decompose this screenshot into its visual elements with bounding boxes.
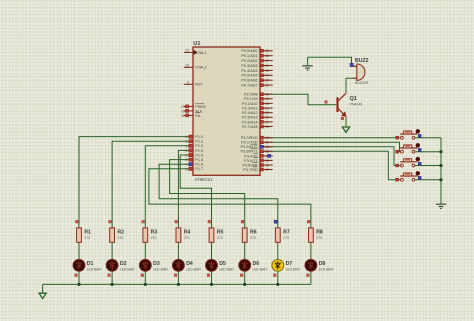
svg-text:36: 36: [265, 64, 269, 68]
svg-text:23: 23: [265, 102, 269, 106]
transistor Q1 (PN4249): [338, 93, 347, 116]
svg-text:AT89C51: AT89C51: [195, 177, 213, 182]
LED D3 (LED-BIBY): [139, 259, 151, 271]
pin P3.7/RD (pin 17): [260, 169, 273, 171]
svg-text:XTAL1: XTAL1: [195, 51, 206, 55]
svg-text:R7: R7: [283, 230, 290, 236]
svg-text:R5: R5: [217, 230, 224, 236]
svg-text:30: 30: [181, 109, 185, 113]
svg-text:P2.5/A13: P2.5/A13: [242, 116, 258, 120]
junction node D5/rail: [210, 283, 213, 286]
wire D4 to ground rail: [177, 271, 179, 284]
wire D7 to ground rail: [277, 271, 279, 284]
wire R5 to D5: [211, 242, 213, 259]
svg-text:R1: R1: [84, 230, 91, 236]
pin P1.2 (pin 3): [189, 144, 192, 147]
pin P0.7/AD7 (pin 32): [260, 84, 273, 86]
wire R1 to D1: [78, 242, 80, 259]
svg-text:2: 2: [186, 140, 188, 144]
wire buzzer - terminal to Q1 collector: [346, 78, 357, 93]
svg-text:P1.3: P1.3: [195, 149, 203, 153]
pin P2.4/A12 (pin 25): [260, 112, 273, 114]
wire P3.0 to button 1: [263, 137, 400, 139]
svg-text:EA: EA: [195, 114, 201, 118]
svg-text:P1.1: P1.1: [195, 140, 203, 144]
wire ground rail: [43, 283, 311, 285]
svg-text:D4: D4: [186, 261, 193, 267]
svg-text:34: 34: [265, 74, 269, 78]
svg-text:39: 39: [265, 49, 269, 53]
svg-text:LED-BIBY: LED-BIBY: [120, 268, 136, 272]
junction node D4/rail: [177, 283, 180, 286]
svg-text:BUZZER: BUZZER: [355, 81, 369, 85]
pin P1.4 (pin 5): [189, 153, 192, 156]
wire P3.3 to button 4: [263, 151, 400, 179]
pin P0.5/AD5 (pin 34): [260, 74, 273, 76]
pin P3.2/INT0 (pin 12): [260, 146, 273, 148]
svg-text:P0.5/AD5: P0.5/AD5: [241, 74, 257, 78]
push button 4: [400, 173, 417, 181]
svg-text:P2.2/A10: P2.2/A10: [242, 102, 258, 106]
svg-text:12: 12: [265, 145, 269, 149]
svg-text:25: 25: [265, 111, 269, 115]
svg-text:XTAL2: XTAL2: [195, 66, 206, 70]
svg-text:R8: R8: [316, 230, 323, 236]
ground (emitter, triangle symbol): [342, 127, 349, 132]
wire P1.1 to R2: [112, 141, 189, 228]
junction node D1/rail: [77, 283, 80, 286]
svg-text:P1.5: P1.5: [195, 158, 203, 162]
svg-text:21: 21: [265, 93, 269, 97]
wire P2.0 to Q1 base: [263, 94, 336, 105]
wire P1.3 to R4: [178, 150, 188, 228]
svg-text:P2.0/A8: P2.0/A8: [244, 93, 258, 97]
junction node bus/button4: [439, 178, 442, 181]
svg-text:LED-BIBY: LED-BIBY: [286, 268, 302, 272]
resistor R6: [241, 220, 244, 223]
svg-text:P2.3/A11: P2.3/A11: [242, 107, 257, 111]
junction node bus/button2: [439, 150, 442, 153]
svg-text:37: 37: [265, 59, 269, 63]
wire R4 to D4: [177, 242, 179, 259]
svg-text:D8: D8: [319, 261, 326, 267]
svg-text:270: 270: [250, 236, 256, 240]
svg-text:LED-BIBY: LED-BIBY: [253, 268, 269, 272]
svg-text:P1.6: P1.6: [195, 163, 203, 167]
resistor R2: [109, 220, 112, 223]
LED D2 (LED-BIBY): [106, 259, 118, 271]
svg-text:P0.2/AD2: P0.2/AD2: [241, 59, 257, 63]
svg-text:5: 5: [186, 154, 188, 158]
wire button 3 to ground bus: [415, 165, 441, 167]
svg-text:18: 18: [185, 63, 189, 67]
pin P0.2/AD2 (pin 37): [260, 60, 273, 62]
pin P2.3/A11 (pin 24): [260, 107, 273, 109]
junction node bus/button3: [439, 164, 442, 167]
wire R3 to D3: [144, 242, 146, 259]
svg-text:D6: D6: [253, 261, 260, 267]
junction node D2/rail: [111, 283, 114, 286]
svg-text:P3.7/RD: P3.7/RD: [243, 168, 258, 172]
wire P1.4 to R5: [180, 155, 211, 228]
junction node D6/rail: [243, 283, 246, 286]
LED D7 (LED-BIBY, lit): [272, 259, 284, 271]
pin P3.3/INT1 (pin 13): [260, 150, 273, 152]
resistor R5: [208, 220, 211, 223]
wire P3.2 to button 3: [263, 147, 400, 166]
pin P3.5/T1 (pin 15): [260, 159, 273, 161]
push button 1: [400, 131, 417, 139]
wire D5 to ground rail: [211, 271, 213, 284]
svg-text:R2: R2: [117, 230, 124, 236]
svg-text:270: 270: [184, 236, 190, 240]
wire D3 to ground rail: [144, 271, 146, 284]
svg-text:270: 270: [217, 236, 223, 240]
pin P2.5/A13 (pin 26): [260, 116, 273, 118]
svg-text:P2.6/A14: P2.6/A14: [242, 120, 258, 124]
svg-text:3: 3: [186, 144, 188, 148]
svg-text:270: 270: [151, 236, 157, 240]
svg-text:17: 17: [265, 168, 269, 172]
svg-text:P0.4/AD4: P0.4/AD4: [241, 69, 257, 73]
svg-text:10: 10: [265, 136, 269, 140]
resistor R4: [175, 220, 178, 223]
svg-text:22: 22: [265, 97, 269, 101]
wire button 4 to ground bus: [415, 179, 441, 181]
wire R6 to D6: [244, 242, 246, 259]
svg-text:P1.0: P1.0: [195, 135, 203, 139]
pin P0.6/AD6 (pin 33): [260, 79, 273, 81]
chip U1 body (AT89C51 MCU): [193, 47, 260, 175]
svg-text:D5: D5: [219, 261, 226, 267]
pin XTAL2 (pin 18): [184, 66, 193, 68]
svg-text:LED-BIBY: LED-BIBY: [153, 268, 169, 272]
wire button ground bus: [440, 138, 442, 204]
pin P0.4/AD4 (pin 35): [260, 69, 273, 71]
svg-text:P3.0/RXD: P3.0/RXD: [241, 136, 258, 140]
pin P0.3/AD3 (pin 36): [260, 65, 273, 67]
wire R8 to D8: [310, 242, 312, 259]
svg-text:7: 7: [186, 163, 188, 167]
svg-text:270: 270: [84, 236, 90, 240]
resistor R1: [76, 220, 79, 223]
pin P2.2/A10 (pin 23): [260, 102, 273, 104]
svg-text:1: 1: [186, 135, 188, 139]
pin PSEN (pin 29): [184, 105, 193, 107]
LED D1 (LED-BIBY): [73, 259, 85, 271]
wire P1.0 to R1: [79, 137, 189, 228]
pin P1.7 (pin 8): [189, 167, 192, 170]
wire D2 to ground rail: [111, 271, 113, 284]
svg-text:P2.1/A9: P2.1/A9: [244, 97, 258, 101]
pin P1.1 (pin 2): [189, 140, 192, 143]
pin P1.0 (pin 1): [189, 135, 192, 138]
svg-text:PN4249: PN4249: [350, 103, 363, 107]
svg-text:29: 29: [181, 105, 185, 109]
svg-text:D2: D2: [120, 261, 127, 267]
svg-text:4: 4: [186, 149, 188, 153]
wire P3.1 to button 2: [263, 142, 400, 152]
pin P2.7/A15 (pin 28): [260, 126, 273, 128]
pin P2.0/A8 (pin 21): [260, 93, 273, 95]
junction node D7/rail: [276, 283, 279, 286]
svg-text:LED-BIBY: LED-BIBY: [219, 268, 235, 272]
LED D8 (LED-BIBY): [305, 259, 317, 271]
svg-text:11: 11: [265, 141, 269, 145]
svg-text:P0.3/AD3: P0.3/AD3: [241, 64, 257, 68]
pin P1.5 (pin 6): [189, 158, 192, 161]
wire D8 to ground rail: [310, 271, 312, 284]
pin P3.0/RXD (pin 10): [260, 137, 273, 139]
svg-text:P1.7: P1.7: [195, 167, 203, 171]
svg-text:P0.6/AD6: P0.6/AD6: [241, 79, 257, 83]
svg-text:13: 13: [265, 150, 269, 154]
resistor R7: [274, 220, 277, 223]
svg-text:270: 270: [316, 236, 322, 240]
push button 2: [400, 145, 417, 153]
pin P3.6/WR (pin 16): [260, 164, 273, 166]
pin P0.1/AD1 (pin 38): [260, 55, 273, 57]
svg-text:P0.7/AD7: P0.7/AD7: [241, 84, 257, 88]
resistor R8: [307, 220, 310, 223]
svg-text:8: 8: [186, 167, 188, 171]
wire P1.5 to R6: [170, 160, 245, 228]
pin P2.6/A14 (pin 27): [260, 121, 273, 123]
wire D6 to ground rail: [244, 271, 246, 284]
svg-text:15: 15: [265, 159, 269, 163]
svg-text:P2.4/A12: P2.4/A12: [242, 111, 258, 115]
svg-text:U1: U1: [193, 41, 200, 47]
pin P3.4/T0 (pin 14): [260, 155, 273, 157]
ground (button bus, bar symbol): [436, 204, 446, 208]
svg-text:RST: RST: [195, 83, 203, 87]
pin P3.1/TXD (pin 11): [260, 141, 273, 143]
svg-text:P2.7/A15: P2.7/A15: [242, 125, 258, 129]
svg-text:R6: R6: [250, 230, 257, 236]
ground (rail, triangle symbol): [39, 293, 46, 298]
svg-text:27: 27: [265, 120, 269, 124]
svg-text:24: 24: [265, 107, 269, 111]
pin P1.3 (pin 4): [189, 149, 192, 152]
svg-text:R4: R4: [184, 230, 191, 236]
svg-text:Q1: Q1: [350, 96, 357, 102]
pin P1.6 (pin 7): [189, 163, 192, 166]
buzzer BUZ2: [357, 64, 365, 80]
svg-text:R3: R3: [151, 230, 158, 236]
junction node D3/rail: [144, 283, 147, 286]
svg-text:P0.0/AD0: P0.0/AD0: [241, 49, 257, 53]
resistor R3: [142, 220, 145, 223]
wire D1 to ground rail: [78, 271, 80, 284]
svg-text:33: 33: [265, 79, 269, 83]
svg-text:PSEN: PSEN: [195, 105, 206, 109]
svg-text:P1.2: P1.2: [195, 144, 203, 148]
svg-text:6: 6: [186, 158, 188, 162]
wire button 1 to ground bus: [415, 137, 441, 139]
svg-text:31: 31: [181, 114, 185, 118]
pin EA (pin 31): [184, 114, 193, 116]
svg-text:19: 19: [185, 48, 189, 52]
node buzzer + (blue state square): [350, 63, 353, 66]
svg-text:P0.1/AD1: P0.1/AD1: [241, 54, 257, 58]
wire P1.7 to R8: [149, 169, 311, 228]
wire P1.6 to R7: [159, 164, 278, 228]
svg-text:38: 38: [265, 54, 269, 58]
wire R7 to D7: [277, 242, 279, 259]
svg-text:P1.4: P1.4: [195, 153, 203, 157]
LED D6 (LED-BIBY): [239, 259, 251, 271]
pin ALE (pin 30): [184, 110, 193, 112]
svg-text:270: 270: [283, 236, 289, 240]
LED D5 (LED-BIBY): [206, 259, 218, 271]
pin XTAL1 (pin 19): [184, 51, 193, 53]
wire ground to buzzer + terminal: [307, 57, 309, 65]
svg-text:D7: D7: [286, 261, 293, 267]
svg-text:LED-BIBY: LED-BIBY: [87, 268, 103, 272]
svg-text:26: 26: [265, 116, 269, 120]
pin P0.0/AD0 (pin 39): [260, 50, 273, 52]
wire button 2 to ground bus: [415, 151, 441, 153]
svg-text:LED-BIBY: LED-BIBY: [319, 268, 335, 272]
wire P1.2 to R3: [145, 146, 188, 228]
pin RST (pin 9): [184, 83, 193, 85]
pin P2.1/A9 (pin 22): [260, 98, 273, 100]
wire R2 to D2: [111, 242, 113, 259]
ground (buzzer branch, bar symbol): [302, 66, 312, 70]
svg-text:D1: D1: [87, 261, 94, 267]
svg-text:D3: D3: [153, 261, 160, 267]
svg-text:16: 16: [265, 163, 269, 167]
wire Q1 emitter to ground: [345, 116, 347, 127]
svg-text:35: 35: [265, 69, 269, 73]
svg-text:LED-BIBY: LED-BIBY: [186, 268, 202, 272]
push button 3: [400, 159, 417, 167]
svg-text:28: 28: [265, 125, 269, 129]
svg-text:BUZ2: BUZ2: [355, 58, 369, 64]
svg-text:32: 32: [265, 84, 269, 88]
svg-text:270: 270: [117, 236, 123, 240]
XTAL1 clock arrow: [194, 50, 198, 55]
svg-text:9: 9: [187, 80, 189, 84]
LED D4 (LED-BIBY): [173, 259, 185, 271]
